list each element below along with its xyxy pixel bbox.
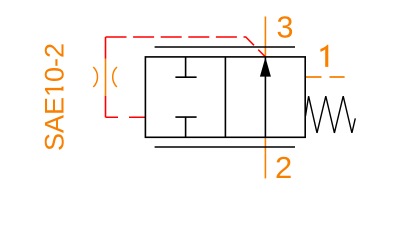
svg-text:2: 2 bbox=[275, 150, 292, 185]
svg-text:3: 3 bbox=[277, 10, 294, 44]
svg-text:SAE10-2: SAE10-2 bbox=[39, 43, 69, 151]
